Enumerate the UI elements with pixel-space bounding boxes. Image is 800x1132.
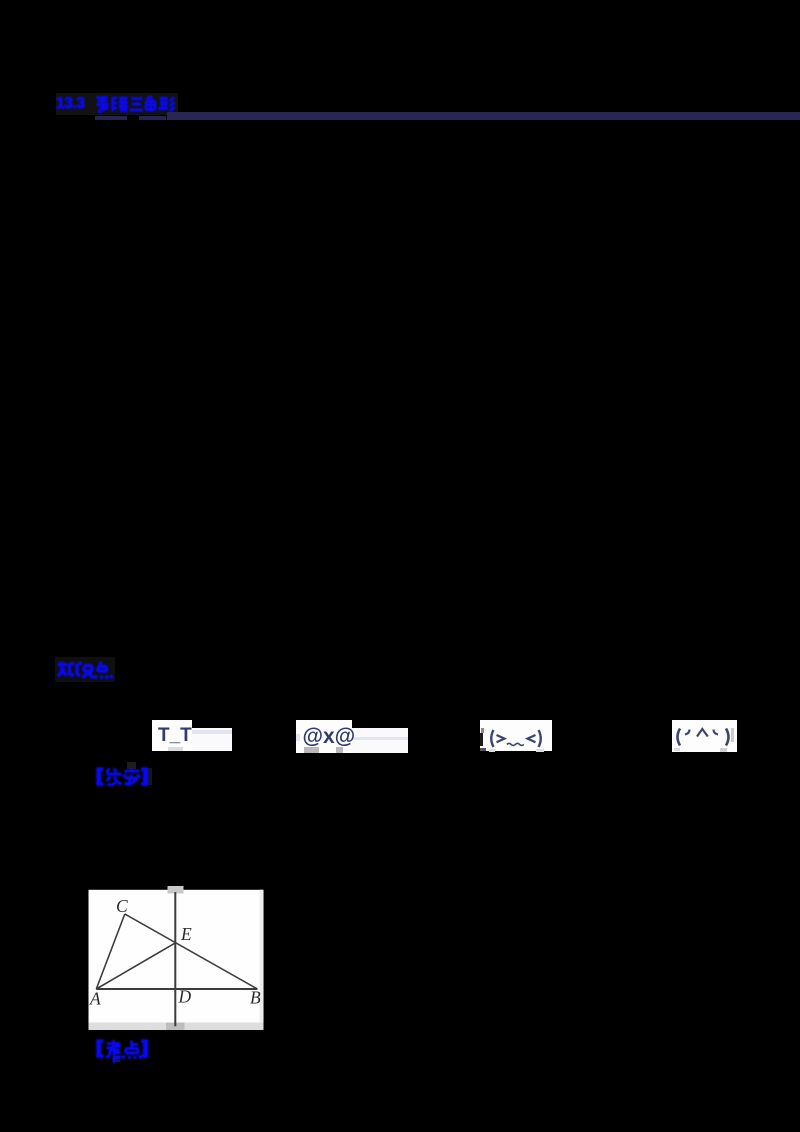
right gray strip — [260, 890, 263, 1030]
line AB — [96, 988, 257, 990]
underline segment 1 under title — [95, 116, 127, 120]
white background — [89, 890, 264, 1030]
heading number 13.3 — [56, 95, 85, 113]
emoticon box 2 (@x@) white card — [296, 720, 352, 753]
svg-text:A: A — [89, 989, 101, 1009]
svg-text:C: C — [116, 896, 128, 916]
label [da an] halo — [127, 762, 136, 769]
svg-text:B: B — [250, 988, 261, 1008]
svg-text:E: E — [180, 924, 192, 944]
emoticon box 2 lavender stripe — [352, 737, 408, 741]
right bracket — [141, 769, 147, 784]
label [kao dian] halo — [113, 1056, 120, 1062]
section heading halo — [55, 657, 115, 682]
emoticon T_T text — [158, 725, 192, 747]
underline segment 2 under title — [139, 116, 166, 120]
char DENG — [96, 96, 108, 112]
section heading CJK (3 chars) — [56, 660, 114, 680]
emoticon box 1 lavender stripe — [192, 730, 232, 734]
bottom gray strip — [89, 1023, 264, 1031]
line AE — [96, 943, 175, 989]
left bracket — [98, 1041, 104, 1056]
char JIAO — [145, 96, 155, 112]
emoticon box 1 (T_T) white card — [152, 720, 192, 752]
emoticon (>﹏<) strokes — [480, 720, 552, 752]
bottom handle — [166, 1023, 185, 1031]
line CA — [96, 914, 125, 989]
char XING — [158, 97, 174, 112]
emoticon box 2 gray mark a — [304, 747, 319, 752]
top handle — [168, 886, 184, 894]
emoticon box 3 bottom gray marks — [489, 749, 496, 752]
emoticon box 2 extension cell — [352, 728, 408, 752]
horizontal rule — [167, 112, 800, 120]
emoticon box 1 gray mark — [168, 747, 184, 751]
label [da an] — [95, 767, 149, 787]
char KAO — [106, 1040, 121, 1063]
line CB through E — [125, 914, 258, 989]
figure image — [88, 886, 264, 1032]
left bracket — [98, 769, 104, 784]
char DA — [107, 768, 122, 784]
heading halo — [56, 93, 178, 115]
emoticon @x@ text — [303, 725, 356, 749]
emoticon box 3 dark marks — [481, 728, 485, 733]
char SAN — [129, 99, 142, 111]
heading title CJK 等腰三角形 — [95, 95, 175, 113]
emoticon (´^`) strokes — [672, 720, 737, 752]
right bracket — [141, 1041, 147, 1056]
emoticon box 3 ((>﹏<)) white card — [480, 720, 552, 752]
emoticon box 1 extension cell — [192, 728, 232, 752]
emoticon box 4 gray marks — [731, 728, 735, 742]
emoticon box 2 left lavender notch — [296, 734, 300, 741]
char DIAN — [122, 1040, 141, 1059]
svg-text:D: D — [178, 987, 192, 1007]
emoticon box 2 gray mark b — [336, 747, 343, 752]
emoticon box 4 ((´^`)) white card — [672, 720, 737, 752]
char AN — [124, 768, 141, 784]
label [kao dian] — [95, 1039, 149, 1063]
char YAO — [112, 97, 128, 112]
perpendicular line through D — [174, 892, 176, 1026]
